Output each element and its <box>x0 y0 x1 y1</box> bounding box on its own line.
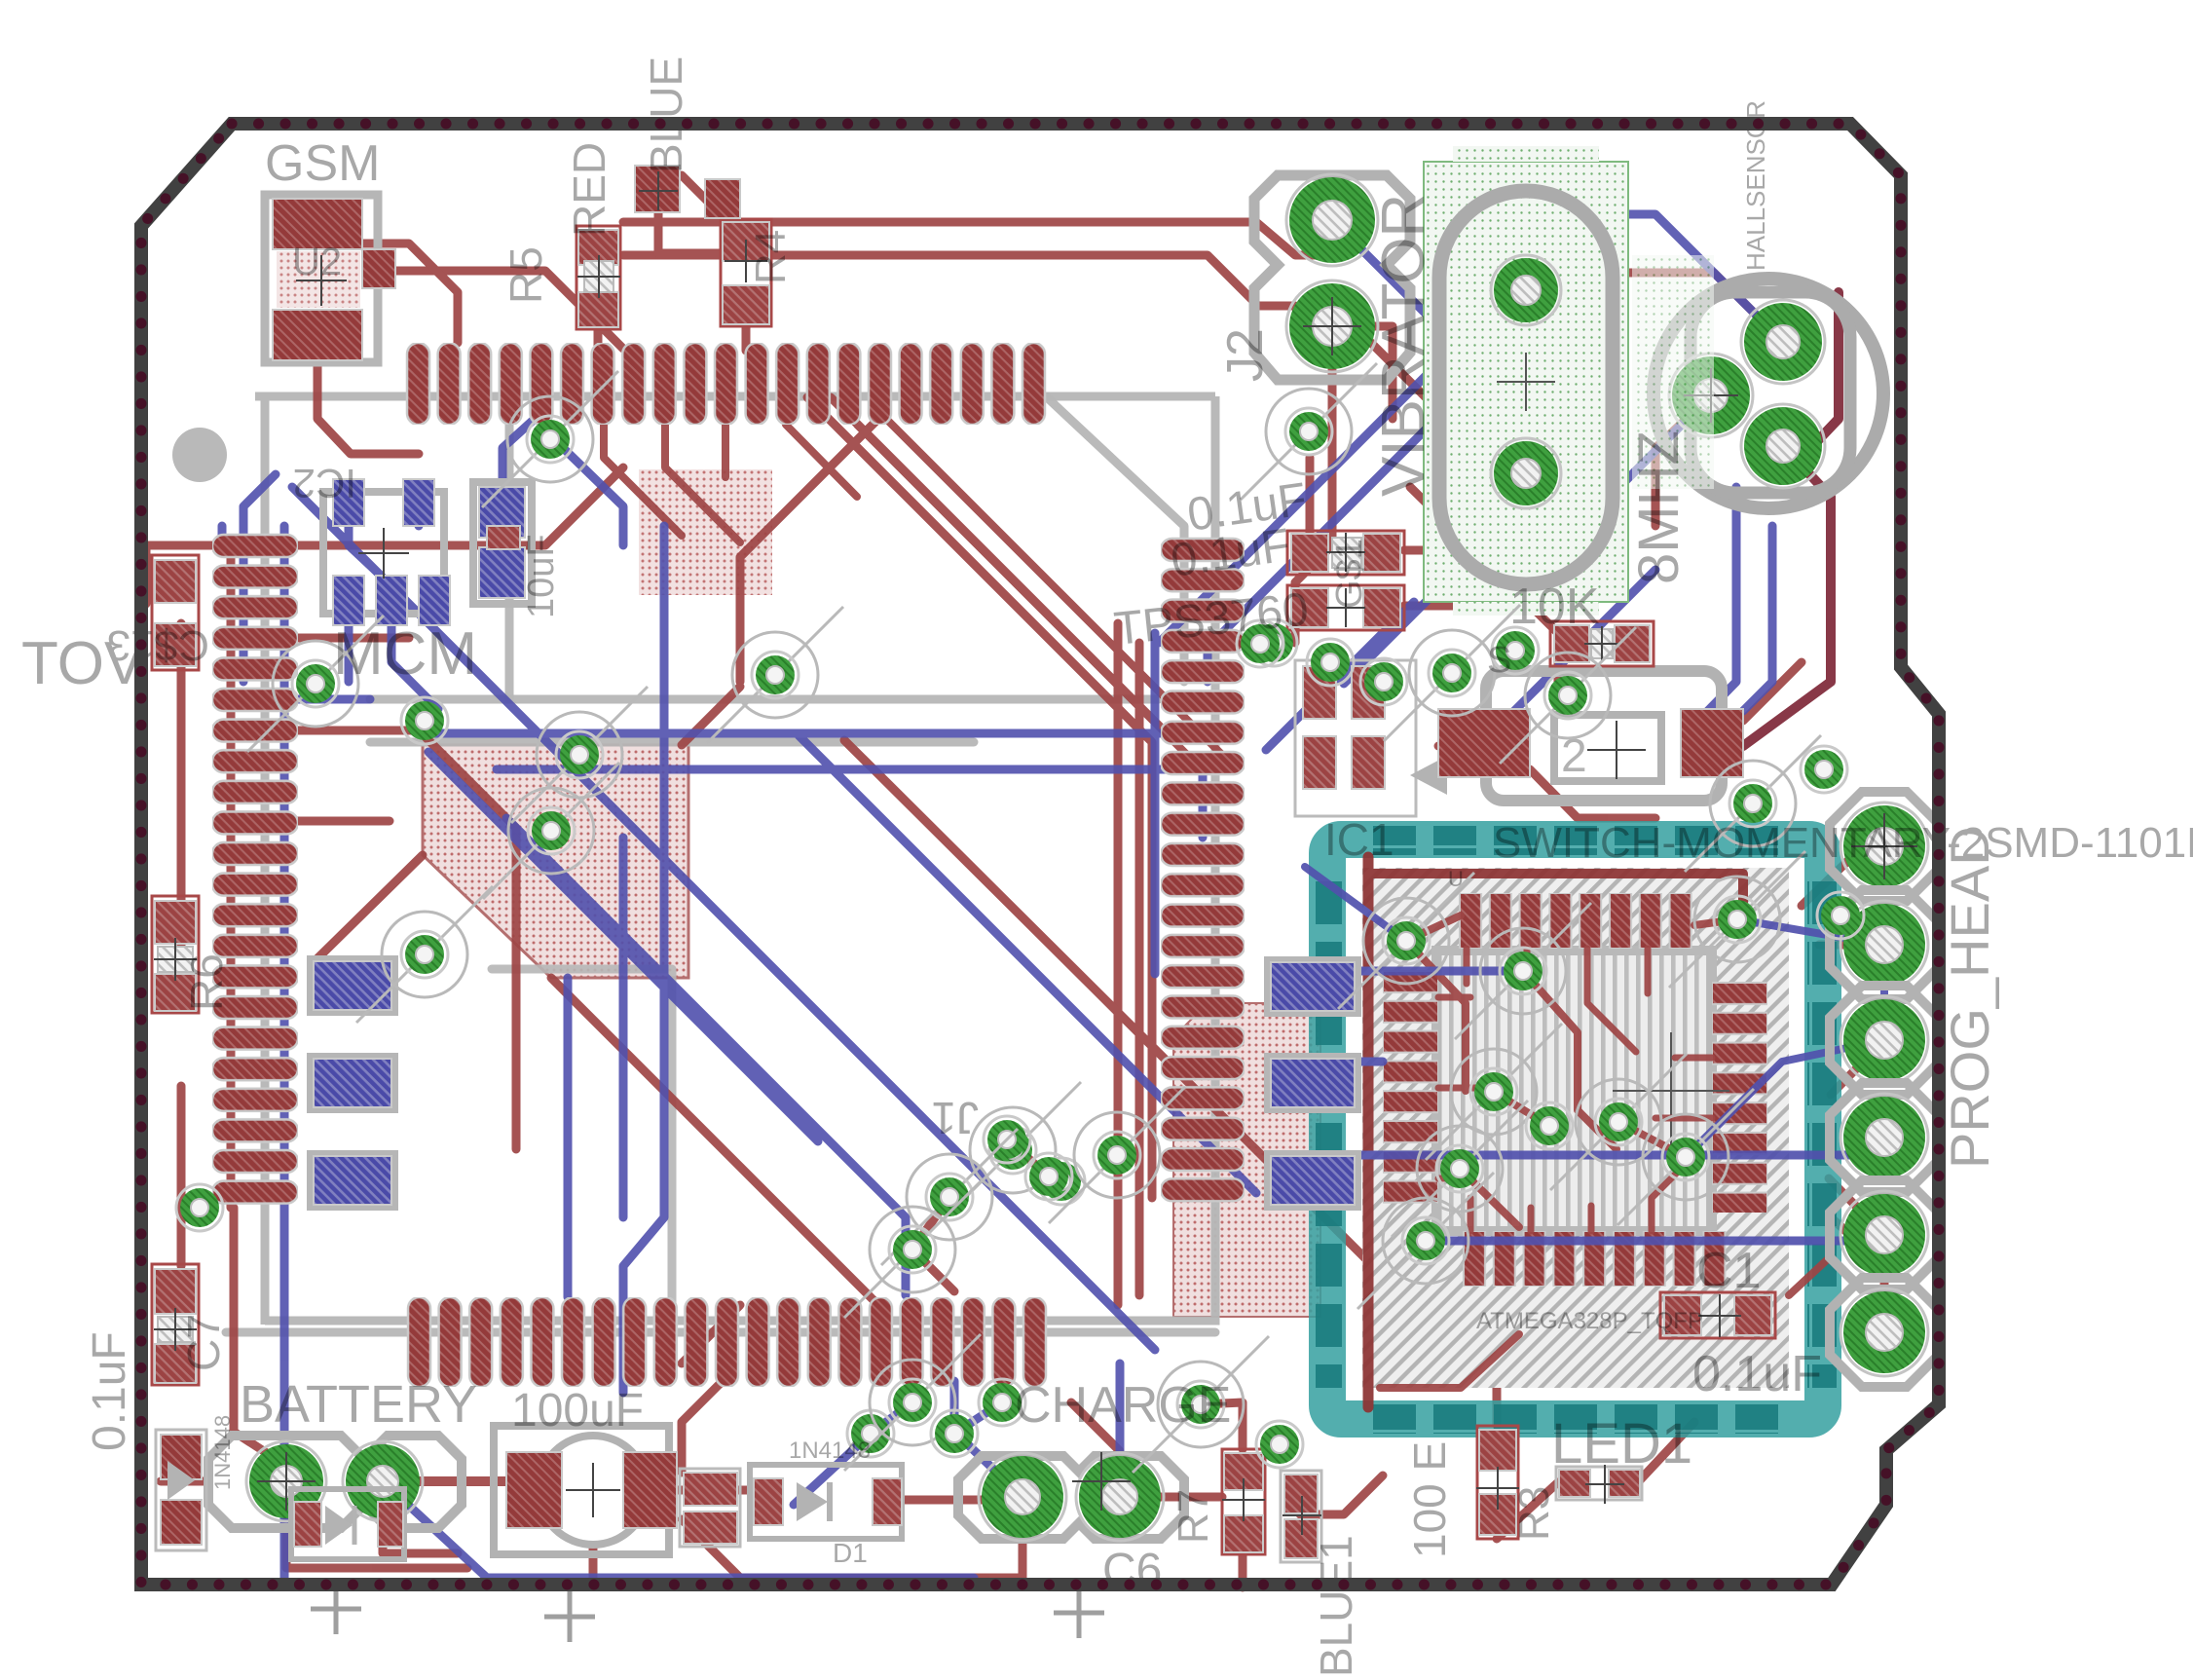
svg-text:J1: J1 <box>931 1093 979 1143</box>
svg-text:100 E: 100 E <box>1404 1441 1455 1558</box>
silk plus marks <box>311 1607 361 1612</box>
IC3 regulator (SOT) <box>1295 660 1447 816</box>
copper pour P3 (right of J1 column) <box>1173 1003 1320 1317</box>
svg-text:BLUE1: BLUE1 <box>1311 1535 1361 1677</box>
vias <box>176 363 1864 1473</box>
svg-text:GSM: GSM <box>265 135 380 192</box>
hall sensor courtyard <box>1632 255 1714 489</box>
svg-text:S: S <box>1487 640 1511 681</box>
wire: right mid nets <box>1410 487 1558 682</box>
capacitor C8 (left of D1) <box>680 1469 740 1547</box>
copper pour P1 (module left) <box>423 745 688 978</box>
svg-text:R3: R3 <box>1510 1486 1558 1541</box>
IC2 (SOT23-5, bottom side) <box>323 479 450 625</box>
copper pour P4 (U2 inner) <box>277 251 360 308</box>
LED pads (RED/BLUE leds) <box>635 166 680 212</box>
resistor R3 <box>1476 1426 1519 1539</box>
IC U2 (GSM antenna pads) <box>265 195 395 362</box>
svg-text:CHARGE: CHARGE <box>1015 1377 1231 1434</box>
wire: blue long diagonals <box>292 487 1155 1350</box>
svg-text:100uF: 100uF <box>511 1385 644 1437</box>
svg-text:R6: R6 <box>181 953 232 1011</box>
copper pour P2 (small square) <box>639 469 772 595</box>
resistor R8 (bottom side) <box>473 482 532 604</box>
wire: middle diagonals down <box>844 740 1373 1266</box>
wire: switch nets <box>1438 742 1482 751</box>
IC1 ATMEGA328P TQFP footprint <box>1314 826 1837 1434</box>
wire: top-left U2 nets <box>393 271 623 349</box>
wire: top double run to J2 <box>623 222 1332 255</box>
resistor R9 <box>152 896 199 1013</box>
board outline <box>141 124 1939 1585</box>
module M1 silk frame <box>255 396 1215 1325</box>
svg-text:C$13: C$13 <box>107 621 209 669</box>
crystal Q1 8MHZ <box>1654 279 1883 508</box>
svg-text:G$1: G$1 <box>1329 539 1370 609</box>
svg-text:LED1: LED1 <box>1551 1412 1692 1475</box>
svg-text:C1: C1 <box>1696 1243 1761 1299</box>
wire: J1 column verticals <box>1114 623 1123 1305</box>
capacitor C6 (100uF) <box>494 1426 677 1554</box>
svg-text:ATMEGA328P_TQFP: ATMEGA328P_TQFP <box>1476 1308 1703 1334</box>
capacitor C1 <box>1660 1292 1775 1338</box>
resistor R2 (10K) <box>1550 621 1654 666</box>
resistor R7 <box>1222 1449 1265 1554</box>
svg-text:U2: U2 <box>292 241 342 283</box>
resistor R5 <box>576 226 620 329</box>
led BLUE1 pads <box>1281 1471 1321 1562</box>
svg-text:U: U <box>1448 867 1464 891</box>
wire: ATMEGA internal traces <box>1295 857 1884 1407</box>
header J2 <box>1254 174 1410 380</box>
svg-text:BLUE: BLUE <box>641 56 691 173</box>
svg-text:0.1uF: 0.1uF <box>1692 1346 1822 1402</box>
switch S1 momentary <box>1438 671 1743 801</box>
svg-text:1N4148: 1N4148 <box>789 1437 871 1464</box>
led LED1 pads <box>1556 1465 1642 1504</box>
vibrator motor footprint <box>1424 146 1628 616</box>
svg-text:D1: D1 <box>833 1538 868 1568</box>
diode D1 <box>750 1465 902 1539</box>
svg-text:R5: R5 <box>501 246 551 304</box>
svg-text:BATTERY: BATTERY <box>240 1375 477 1434</box>
wire: blue across ATMEGA <box>1327 967 1523 976</box>
wire: blue top-left IC2 <box>349 526 380 575</box>
svg-text:IC1: IC1 <box>1324 814 1394 865</box>
silk long lines (module inner) <box>370 695 1159 704</box>
svg-text:10K: 10K <box>1509 579 1600 635</box>
wire: blue verticals <box>280 526 289 1578</box>
wire: bottom nets <box>419 1476 506 1486</box>
board outline dots <box>141 124 1939 1585</box>
svg-text:10uF: 10uF <box>521 534 562 618</box>
wire: big diagonals from top connector to J1 column <box>807 397 1152 877</box>
svg-text:0.1uF: 0.1uF <box>84 1331 135 1451</box>
wire: blue right area <box>1159 321 1480 643</box>
blue pads column left (module) <box>310 958 395 1208</box>
resistor R4 <box>721 219 771 326</box>
wire: blue horizontals <box>433 729 1208 738</box>
svg-text:VIBRATOR: VIBRATOR <box>1370 194 1437 497</box>
header PROG_HEAD <box>1830 792 1939 1387</box>
svg-text:C7: C7 <box>178 1314 229 1371</box>
svg-text:MCM: MCM <box>333 620 477 688</box>
svg-text:IC2: IC2 <box>293 461 356 506</box>
wire: left module verticals <box>177 623 186 974</box>
resistor R6 <box>152 555 199 670</box>
svg-text:8MHZ: 8MHZ <box>1627 430 1691 584</box>
wire: blue bottom <box>383 1481 974 1578</box>
capacitor C9 pads (left edge bottom) <box>156 1430 206 1550</box>
svg-text:RED: RED <box>564 142 614 237</box>
svg-text:R7: R7 <box>1170 1489 1217 1544</box>
svg-text:J2: J2 <box>1217 328 1274 382</box>
battery holder pads <box>208 1436 462 1528</box>
svg-text:R4: R4 <box>747 230 795 284</box>
capacitor C7 <box>152 1264 199 1385</box>
svg-text:SWITCH-MOMENTARY-2SMD-1101NE: SWITCH-MOMENTARY-2SMD-1101NE <box>1493 819 2193 867</box>
caps C4/C5 (0.1uF pair) <box>1287 531 1404 630</box>
wire: J2 down <box>1295 370 1332 643</box>
wire: PROG_HEAD feeds <box>1819 941 1884 950</box>
wire: R4/R5 stubs <box>594 329 603 351</box>
diode D2 <box>291 1489 404 1559</box>
svg-text:1N4148: 1N4148 <box>210 1415 235 1490</box>
blue pads column right (module) <box>1267 959 1358 1208</box>
svg-text:PROG_HEAD: PROG_HEAD <box>1939 826 2000 1169</box>
header CHARGE pads <box>958 1452 1184 1541</box>
fiducial hole <box>172 428 227 482</box>
